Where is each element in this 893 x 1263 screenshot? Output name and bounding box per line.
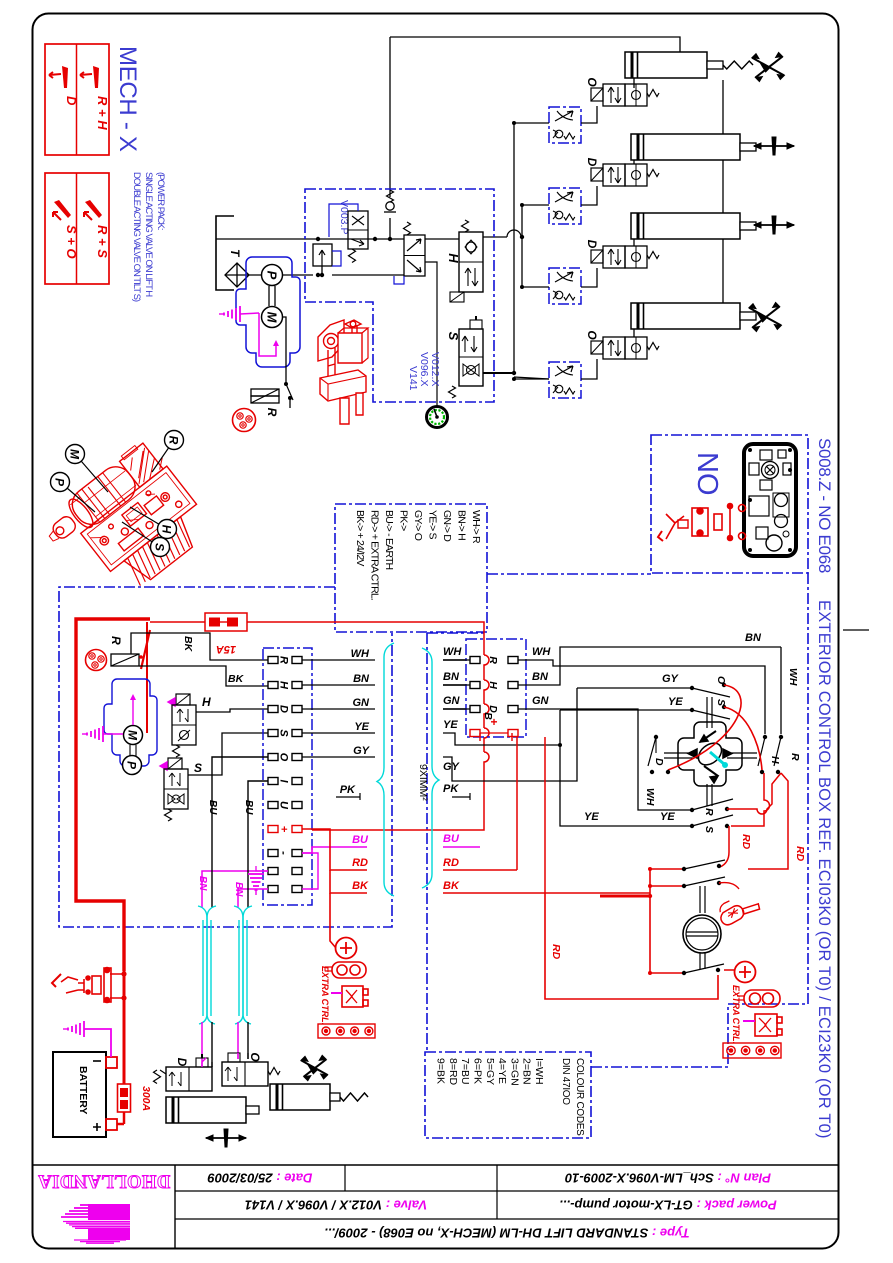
svg-text:H: H (160, 525, 174, 534)
svg-text:NO: NO (691, 452, 723, 496)
svg-text:9=BK: 9=BK (435, 1058, 447, 1084)
svg-text:DOUBLE ACTING VALVE ON TILT S): DOUBLE ACTING VALVE ON TILT S) (131, 172, 142, 302)
svg-text:S: S (278, 729, 290, 737)
svg-text:7=BU: 7=BU (459, 1058, 471, 1085)
svg-text:WH: WH (443, 646, 462, 658)
svg-text:EXTRA CTRL.: EXTRA CTRL. (731, 985, 741, 1044)
svg-text:8=RD: 8=RD (447, 1058, 459, 1086)
svg-text:BN: BN (197, 876, 208, 891)
svg-text:BK: BK (443, 880, 460, 892)
svg-text:WH: WH (532, 646, 551, 658)
svg-text:BK: BK (352, 880, 369, 892)
svg-text:RD: RD (443, 857, 459, 869)
svg-text:H: H (202, 695, 211, 709)
svg-text:EXTRA CTRL.: EXTRA CTRL. (320, 966, 330, 1025)
svg-text:Date : 25/03/2009: Date : 25/03/2009 (207, 1171, 313, 1186)
svg-text:M: M (126, 730, 140, 741)
svg-text:PK: PK (340, 784, 356, 796)
svg-text:SINGLE ACTING VALVE ON LIFT H: SINGLE ACTING VALVE ON LIFT H (143, 172, 154, 297)
svg-text:R: R (109, 636, 123, 645)
svg-text:R: R (703, 808, 715, 816)
svg-text:9XIMM²: 9XIMM² (417, 764, 429, 801)
svg-text:D: D (653, 758, 665, 766)
svg-text:BN: BN (443, 671, 460, 683)
svg-text:RD: RD (352, 857, 368, 869)
svg-text:R + H: R + H (95, 96, 110, 130)
svg-text:EXTERIOR CONTROL BOX REF. ECI0: EXTERIOR CONTROL BOX REF. ECI03K0 (OR T0… (815, 600, 833, 1139)
svg-text:Plan N° : Sch_LM-V096.X-2009-1: Plan N° : Sch_LM-V096.X-2009-10 (564, 1171, 771, 1186)
svg-text:6=PK: 6=PK (472, 1058, 484, 1084)
svg-text:300A: 300A (140, 1086, 152, 1111)
svg-text:DIN 47IOO: DIN 47IOO (560, 1058, 571, 1105)
svg-text:3=GN: 3=GN (508, 1058, 520, 1086)
svg-text:BU: BU (243, 800, 254, 815)
svg-text:GN-> D: GN-> D (441, 510, 453, 542)
svg-text:P: P (53, 478, 67, 487)
svg-text:S008.Z - NO E068: S008.Z - NO E068 (815, 438, 834, 573)
svg-text:BU: BU (207, 800, 218, 815)
svg-text:H: H (278, 681, 290, 690)
svg-text:Type : STANDARD LIFT DH-LM (ME: Type : STANDARD LIFT DH-LM (MECH-X, no E… (324, 1226, 689, 1241)
svg-text:GN: GN (353, 697, 371, 709)
svg-text:BK: BK (182, 636, 194, 653)
svg-text:GN: GN (443, 695, 461, 707)
svg-text:BN: BN (233, 882, 244, 897)
svg-text:D: D (64, 96, 79, 106)
svg-text:D: D (278, 705, 290, 713)
svg-text:R: R (278, 656, 290, 664)
svg-text:MECH - X: MECH - X (114, 46, 141, 152)
svg-text:H: H (769, 756, 781, 764)
svg-text:M: M (265, 312, 280, 324)
svg-text:R: R (167, 436, 181, 445)
svg-text:RD-> + EXTRA CTRL.: RD-> + EXTRA CTRL. (369, 510, 381, 600)
svg-text:BU: BU (443, 833, 460, 845)
svg-text:H: H (487, 681, 499, 689)
svg-text:P: P (265, 271, 280, 280)
svg-text:R: R (487, 656, 499, 664)
svg-text:PK->: PK-> (398, 510, 410, 531)
svg-text:+: + (278, 826, 290, 833)
svg-text:BK-> + 24/I2V: BK-> + 24/I2V (354, 510, 366, 566)
svg-text:GN: GN (532, 695, 550, 707)
svg-text:YE: YE (354, 721, 369, 733)
svg-text:S + O: S + O (64, 225, 79, 259)
svg-text:PK: PK (443, 783, 459, 795)
svg-text:RD: RD (550, 944, 562, 960)
svg-text:GY-> O: GY-> O (412, 510, 424, 541)
svg-text:YE: YE (668, 696, 683, 708)
svg-text:D: D (175, 1058, 189, 1067)
svg-text:+: + (490, 715, 497, 729)
svg-text:Valve : V012.X / V096.X / V141: Valve : V012.X / V096.X / V141 (245, 1198, 427, 1213)
svg-text:O: O (585, 330, 599, 340)
svg-text:Power pack : GT-LX-motor pump-: Power pack : GT-LX-motor pump-... (559, 1198, 776, 1213)
svg-text:S: S (153, 543, 167, 551)
svg-text:GY: GY (353, 745, 371, 757)
svg-text:RD: RD (740, 834, 752, 850)
svg-text:R + S: R + S (95, 225, 110, 258)
svg-text:I=WH: I=WH (533, 1058, 545, 1085)
svg-text:WH: WH (787, 668, 799, 686)
svg-text:-: - (278, 851, 290, 855)
svg-text:BATTERY: BATTERY (77, 1066, 89, 1114)
svg-text:R: R (789, 753, 801, 761)
svg-text:V141: V141 (407, 366, 419, 391)
svg-text:BK: BK (228, 673, 245, 685)
svg-text:M: M (68, 449, 82, 460)
svg-text:WH: WH (351, 648, 370, 660)
svg-text:RD: RD (794, 846, 806, 862)
svg-text:4=YE: 4=YE (496, 1058, 508, 1084)
svg-text:S: S (715, 699, 727, 706)
svg-text:U: U (278, 801, 290, 810)
svg-text:O: O (585, 77, 599, 87)
svg-text:BU-> - EARTH: BU-> - EARTH (383, 510, 395, 570)
svg-text:GY: GY (662, 673, 680, 685)
svg-text:2=BN: 2=BN (521, 1058, 533, 1085)
svg-text:BN-> H: BN-> H (456, 510, 468, 540)
svg-text:WH-> R: WH-> R (470, 510, 482, 544)
svg-text:O: O (715, 676, 727, 684)
svg-text:YE: YE (443, 719, 458, 731)
svg-text:5=GY: 5=GY (484, 1058, 496, 1085)
svg-text:YE: YE (660, 811, 675, 823)
svg-text:15A: 15A (216, 643, 236, 655)
svg-text:BN: BN (532, 671, 549, 683)
svg-text:P: P (125, 761, 139, 770)
svg-text:BN: BN (745, 632, 762, 644)
svg-text:(POWER PACK:: (POWER PACK: (155, 172, 166, 230)
svg-text:O: O (248, 1052, 262, 1062)
svg-text:R: R (265, 408, 279, 417)
svg-text:YE: YE (584, 811, 599, 823)
svg-text:DHOLLANDIA: DHOLLANDIA (38, 1171, 171, 1191)
svg-text:O: O (278, 753, 290, 762)
svg-text:BN: BN (353, 673, 370, 685)
svg-text:D: D (585, 240, 599, 249)
svg-text:S: S (194, 761, 202, 775)
svg-text:YE-> S: YE-> S (427, 510, 439, 540)
svg-text:D: D (585, 158, 599, 167)
svg-text:COLOUR CODES: COLOUR CODES (574, 1058, 585, 1136)
svg-text:BU: BU (352, 834, 369, 846)
svg-text:WH: WH (644, 788, 656, 806)
svg-text:S: S (703, 826, 715, 833)
